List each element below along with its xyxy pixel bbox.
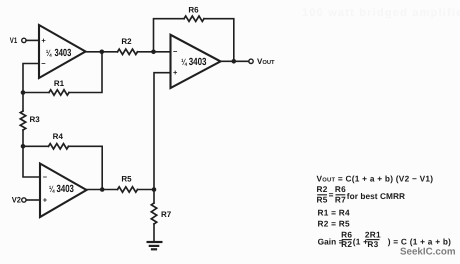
svg-text:R7: R7 <box>161 210 172 219</box>
svg-text:Gain =: Gain = <box>318 237 344 247</box>
svg-text:R1 = R4: R1 = R4 <box>318 207 351 217</box>
svg-text:SeekIC.com: SeekIC.com <box>400 246 456 257</box>
svg-text:) = C (1 + a + b): ) = C (1 + a + b) <box>388 237 452 247</box>
svg-text:R2: R2 <box>317 184 328 194</box>
svg-text:for best CMRR: for best CMRR <box>347 191 405 201</box>
svg-text:V1: V1 <box>10 36 18 45</box>
svg-text:+: + <box>173 68 178 77</box>
svg-text:100 watt bridged amplifier: 100 watt bridged amplifier <box>302 7 460 19</box>
svg-text:3403: 3403 <box>189 57 207 68</box>
svg-text:+: + <box>43 195 48 204</box>
svg-text:R7: R7 <box>335 194 346 204</box>
svg-text:=: = <box>329 189 334 199</box>
svg-text:R2: R2 <box>121 37 132 46</box>
svg-text:−: − <box>41 59 46 68</box>
svg-text:R2 = R5: R2 = R5 <box>318 219 351 229</box>
svg-text:V2: V2 <box>12 195 22 204</box>
svg-text:R5: R5 <box>121 175 132 184</box>
svg-text:R1: R1 <box>54 79 65 88</box>
svg-text:R6: R6 <box>335 184 346 194</box>
svg-text:R2: R2 <box>341 239 352 249</box>
svg-text:−: − <box>43 173 48 182</box>
svg-text:R3: R3 <box>367 239 378 249</box>
svg-text:R4: R4 <box>53 132 64 141</box>
svg-text:R6: R6 <box>188 5 199 14</box>
svg-text:R5: R5 <box>317 194 328 204</box>
svg-text:3403: 3403 <box>55 48 72 59</box>
svg-text:3403: 3403 <box>57 184 75 195</box>
svg-text:−: − <box>173 47 178 56</box>
svg-text:R3: R3 <box>30 115 41 124</box>
svg-text:+: + <box>41 36 46 45</box>
